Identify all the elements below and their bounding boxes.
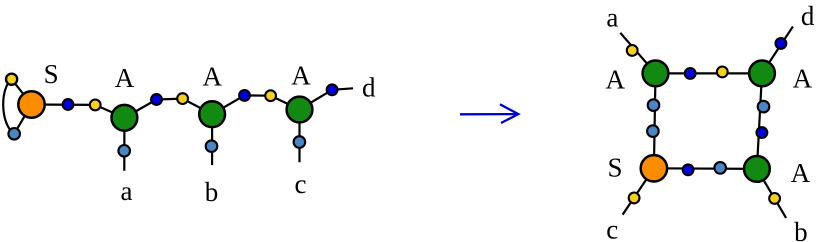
- node A3 (green): [287, 97, 313, 123]
- bond dot light blue bottom edge: [714, 162, 726, 174]
- svg-text:b: b: [205, 177, 219, 207]
- svg-text:S: S: [607, 153, 622, 183]
- loop arc on node S (yellow pin to blue pin): [3, 79, 14, 134]
- pin dot yellow on S loop: [6, 74, 17, 85]
- arrow (blue): [460, 104, 518, 123]
- svg-text:S: S: [44, 59, 59, 89]
- wire leg c (to bottom-left): [623, 168, 654, 214]
- leg dot light blue on a: [118, 145, 130, 157]
- svg-text:b: b: [794, 217, 808, 242]
- node A1 (green): [112, 105, 138, 131]
- bond dot dark blue top edge: [685, 68, 696, 79]
- node A2 (green): [199, 101, 225, 127]
- bond dot yellow A2-A3: [265, 90, 276, 101]
- leg dot yellow on b leg: [769, 193, 780, 204]
- node S (orange): [18, 91, 44, 117]
- svg-text:d: d: [362, 73, 376, 103]
- svg-text:A: A: [203, 61, 223, 91]
- bond dot dark blue on leg d: [327, 84, 338, 95]
- wire A2 physical leg b: [211, 114, 213, 165]
- pin dot light blue on S loop: [8, 128, 20, 140]
- wire A1 physical leg a: [123, 118, 125, 171]
- node A top-right (green): [749, 61, 775, 87]
- wire ring top edge: [656, 72, 763, 74]
- wire S to light-blue loop pin: [14, 105, 31, 134]
- bond dot dark blue A1-A2: [151, 94, 162, 105]
- leg dot yellow on a leg: [627, 45, 638, 56]
- bond dot light blue right edge upper: [758, 101, 770, 113]
- wire A2 to A3 bond: [212, 95, 299, 114]
- bond dot yellow S-A1: [90, 100, 101, 111]
- svg-text:c: c: [606, 214, 618, 242]
- wire leg a (to top-left): [620, 33, 655, 74]
- node A bottom-right (green): [744, 156, 770, 182]
- wire leg b (to bottom-right): [757, 169, 786, 218]
- svg-text:c: c: [295, 169, 307, 199]
- wire A3 to open leg d: [300, 88, 354, 109]
- bond dot yellow top edge: [717, 67, 728, 78]
- bond dot dark blue A2-A3: [239, 90, 250, 101]
- wire A3 physical leg c: [298, 110, 300, 163]
- bond dot yellow A1-A2: [177, 93, 188, 104]
- leg dot dark blue on d leg: [776, 38, 787, 49]
- bond dot light blue left edge upper: [648, 99, 660, 111]
- svg-text:A: A: [291, 61, 311, 91]
- svg-text:A: A: [793, 63, 813, 93]
- wire S to A1 bond: [32, 105, 125, 118]
- wire ring bottom edge: [654, 167, 757, 170]
- wire ring right edge: [757, 73, 762, 168]
- svg-text:A: A: [605, 65, 625, 95]
- wire ring left edge: [654, 73, 656, 168]
- bond dot light blue left edge lower: [647, 125, 659, 137]
- svg-text:d: d: [801, 1, 815, 31]
- wire A1 to A2 bond: [124, 99, 212, 118]
- leg dot light blue on b: [206, 140, 218, 152]
- wire leg d (to top-right): [762, 27, 793, 74]
- bond dot dark blue S-A1: [63, 99, 74, 110]
- svg-text:a: a: [606, 3, 618, 33]
- leg dot yellow on c leg: [629, 193, 640, 204]
- node S bottom-left (orange): [641, 155, 667, 181]
- leg dot light blue on c: [294, 136, 306, 148]
- bond dot dark blue right edge lower: [757, 127, 768, 138]
- bond dot dark blue bottom edge: [683, 164, 694, 175]
- svg-text:a: a: [121, 176, 133, 206]
- wire S to yellow loop pin: [12, 79, 32, 104]
- node A top-left (green): [643, 61, 669, 87]
- svg-text:A: A: [115, 63, 135, 93]
- svg-text:A: A: [791, 158, 811, 188]
